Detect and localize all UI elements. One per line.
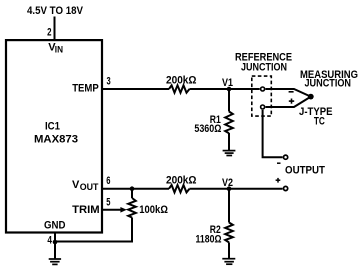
wire VOUT pin to resistor — [102, 188, 169, 190]
wire resistor to node V1 and reference junction — [190, 88, 260, 90]
junction dot at potentiometer top — [130, 186, 135, 191]
thermocouple bottom wire — [266, 97, 311, 107]
junction dot GND pin — [53, 240, 58, 245]
svg-text:5: 5 — [106, 197, 110, 209]
wire V2 to R2 — [228, 189, 230, 223]
terminal circle bottom (reference junction) — [261, 105, 265, 109]
output plus sign — [276, 178, 281, 183]
svg-text:6: 6 — [106, 175, 110, 187]
potentiometer wiper arrowhead — [120, 207, 126, 213]
svg-text:IC1: IC1 — [45, 121, 60, 133]
reference junction label — [235, 52, 292, 74]
output minus terminal circle — [284, 155, 288, 159]
svg-text:4: 4 — [47, 235, 52, 247]
thermocouple top wire — [266, 89, 311, 97]
polarity plus at thermocouple — [289, 99, 294, 104]
wire R2 to ground — [228, 242, 230, 258]
node V1 junction dot — [227, 87, 232, 92]
output minus sign — [277, 162, 281, 164]
output plus terminal circle — [284, 186, 288, 190]
ground under R1 — [223, 151, 236, 156]
wire GND pin to ground — [54, 233, 56, 259]
svg-text:1180Ω: 1180Ω — [196, 233, 222, 245]
svg-text:100kΩ: 100kΩ — [139, 204, 168, 216]
svg-text:2: 2 — [47, 27, 51, 39]
svg-text:TRIM: TRIM — [72, 204, 100, 216]
resistor R2 — [225, 223, 233, 243]
wire V1 to R1 — [228, 89, 230, 112]
svg-text:OUTPUT: OUTPUT — [285, 165, 325, 177]
pin label VOUT — [72, 179, 99, 192]
wire resistor to node V2 and output plus — [190, 188, 283, 190]
svg-text:OUT: OUT — [80, 182, 99, 192]
measuring junction label — [300, 69, 358, 89]
svg-text:GND: GND — [44, 219, 66, 231]
svg-text:TC: TC — [314, 115, 325, 127]
polarity minus at thermocouple — [289, 91, 294, 93]
svg-text:MAX873: MAX873 — [34, 134, 78, 146]
svg-text:JUNCTION: JUNCTION — [241, 62, 287, 74]
svg-text:200kΩ: 200kΩ — [166, 75, 197, 87]
pin label VIN — [48, 41, 63, 54]
terminal circle top (reference junction) — [261, 87, 265, 91]
svg-text:3: 3 — [107, 76, 111, 88]
wire VOUT node to potentiometer — [131, 189, 133, 198]
wire supply to VIN pin — [54, 17, 56, 42]
node V2 junction dot — [227, 186, 232, 191]
resistor 200k bottom — [169, 185, 190, 192]
potentiometer 100k — [128, 198, 136, 218]
J-type thermocouple label — [299, 106, 333, 127]
resistor 200k top — [169, 85, 190, 92]
svg-text:V1: V1 — [222, 77, 233, 89]
wire R1 to ground — [228, 133, 230, 150]
measuring junction dot — [308, 94, 314, 100]
wire TEMP pin to resistor — [102, 88, 169, 90]
ground under GND pin — [49, 259, 61, 264]
IC1 MAX873 body — [6, 40, 102, 232]
resistor R1 — [225, 112, 233, 134]
svg-text:4.5V TO 18V: 4.5V TO 18V — [27, 5, 84, 17]
wire reference junction bottom to output minus — [263, 110, 283, 157]
svg-text:IN: IN — [55, 44, 63, 54]
ground under R2 — [222, 259, 235, 265]
svg-text:5360Ω: 5360Ω — [194, 123, 221, 135]
wire potentiometer bottom to ground rail — [55, 218, 132, 242]
wire TRIM pin to potentiometer wiper — [102, 209, 122, 211]
svg-text:JUNCTION: JUNCTION — [305, 77, 352, 89]
svg-text:TEMP: TEMP — [72, 83, 99, 95]
reference junction dashed box — [252, 76, 271, 116]
